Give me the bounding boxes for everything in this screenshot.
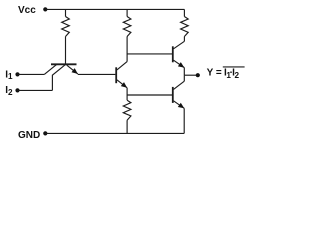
wire: output node vertical (Q4 emitter to Q3 collector) bbox=[183, 75, 185, 81]
resistor R4 bbox=[123, 95, 131, 133]
wire: output stub to Y bbox=[184, 74, 197, 76]
wire: I2 to Q1 emitter bbox=[18, 89, 53, 91]
resistor R1 bbox=[62, 9, 70, 63]
GND terminal dot bbox=[43, 131, 47, 135]
input I2 terminal dot bbox=[15, 88, 19, 92]
svg-text:2: 2 bbox=[8, 88, 13, 97]
input I2 label bbox=[5, 85, 13, 97]
resistor R2 bbox=[123, 9, 131, 61]
wire: Q2 collector / R2 node to Q4 base bbox=[127, 53, 172, 55]
output terminal dot bbox=[196, 73, 200, 77]
transistor Q2 (phase splitter) bbox=[116, 62, 127, 95]
wire: Q1 collector to Q2 base bbox=[78, 73, 116, 75]
wire: I1 to Q1 emitter bbox=[18, 73, 45, 75]
resistor R3 bbox=[181, 9, 189, 41]
wire: Q2 emitter node to Q3 base bbox=[127, 94, 172, 96]
transistor Q4 (pull-up output) bbox=[173, 41, 185, 75]
transistor Q1 (multi-emitter input) bbox=[44, 64, 78, 90]
svg-text:GND: GND bbox=[18, 130, 40, 141]
transistor Q3 (pull-down output) bbox=[173, 81, 185, 133]
svg-text:Y =: Y = bbox=[207, 67, 222, 78]
svg-text:1: 1 bbox=[8, 72, 13, 81]
svg-text:2: 2 bbox=[235, 71, 240, 80]
overline of Y expression bbox=[223, 66, 245, 68]
node Y output label bbox=[207, 67, 240, 80]
input I1 terminal dot bbox=[15, 72, 19, 76]
wire: GND rail bbox=[45, 132, 184, 134]
wire: Vcc top rail bbox=[45, 8, 184, 10]
Vcc terminal dot bbox=[43, 7, 47, 11]
input I1 label bbox=[5, 69, 13, 81]
svg-text:Vcc: Vcc bbox=[18, 5, 36, 16]
